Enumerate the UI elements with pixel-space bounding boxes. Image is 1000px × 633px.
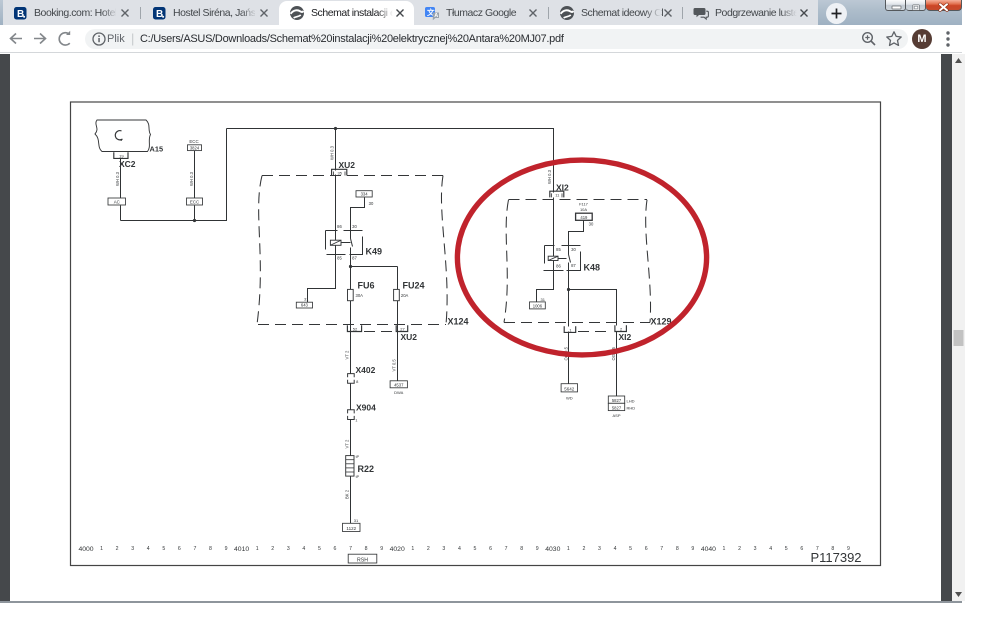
- svg-text:A15: A15: [150, 145, 164, 154]
- svg-text:2: 2: [620, 326, 623, 331]
- svg-text:WH 0.3: WH 0.3: [329, 145, 334, 160]
- svg-text:52: 52: [353, 326, 358, 331]
- svg-text:5: 5: [474, 546, 477, 552]
- svg-text:WH 0.3: WH 0.3: [115, 171, 120, 186]
- svg-text:3: 3: [598, 546, 601, 552]
- svg-text:8: 8: [676, 546, 679, 552]
- svg-text:9: 9: [225, 546, 228, 552]
- svg-text:27: 27: [400, 326, 405, 331]
- svg-text:87: 87: [571, 263, 576, 268]
- svg-text:30A: 30A: [356, 293, 364, 298]
- svg-text:19: 19: [119, 153, 124, 158]
- svg-text:86: 86: [337, 224, 342, 229]
- svg-text:30: 30: [369, 201, 374, 206]
- svg-text:1006: 1006: [533, 304, 543, 309]
- svg-text:WH 0.3: WH 0.3: [547, 169, 552, 184]
- svg-text:30: 30: [352, 224, 357, 229]
- svg-text:AC: AC: [114, 200, 120, 205]
- svg-text:6: 6: [334, 546, 337, 552]
- svg-text:4: 4: [302, 546, 305, 552]
- svg-text:4537: 4537: [394, 383, 404, 388]
- svg-text:FU24: FU24: [403, 280, 425, 290]
- svg-text:1: 1: [723, 546, 726, 552]
- svg-text:tP: tP: [356, 475, 360, 479]
- svg-text:VT 2: VT 2: [344, 350, 349, 359]
- svg-text:XU2: XU2: [401, 332, 418, 342]
- svg-text:RHD: RHD: [627, 406, 636, 411]
- svg-text:1: 1: [256, 546, 259, 552]
- svg-text:4020: 4020: [390, 546, 405, 553]
- svg-text:7: 7: [660, 546, 663, 552]
- svg-text:XI2: XI2: [556, 182, 569, 192]
- svg-text:ASP: ASP: [612, 413, 620, 418]
- svg-text:3: 3: [131, 546, 134, 552]
- svg-text:BK 2: BK 2: [344, 489, 349, 499]
- svg-text:2: 2: [582, 546, 585, 552]
- svg-text:ECC: ECC: [189, 139, 198, 144]
- svg-text:RSH: RSH: [357, 558, 368, 564]
- svg-text:XI2: XI2: [619, 332, 632, 342]
- svg-text:20A: 20A: [401, 293, 409, 298]
- svg-text:3: 3: [754, 546, 757, 552]
- svg-text:K49: K49: [366, 247, 383, 257]
- svg-text:6: 6: [800, 546, 803, 552]
- svg-text:5: 5: [629, 546, 632, 552]
- svg-text:tP: tP: [356, 455, 360, 459]
- svg-text:419: 419: [580, 215, 588, 220]
- svg-text:31: 31: [304, 297, 309, 302]
- svg-text:7: 7: [349, 546, 352, 552]
- svg-text:K48: K48: [584, 263, 601, 273]
- svg-text:P117392: P117392: [810, 550, 861, 565]
- svg-text:XU2: XU2: [339, 160, 356, 170]
- svg-text:9: 9: [380, 546, 383, 552]
- svg-text:85: 85: [337, 255, 342, 260]
- svg-text:1122: 1122: [346, 526, 356, 531]
- svg-text:X904: X904: [356, 403, 376, 413]
- svg-text:31: 31: [540, 297, 545, 302]
- svg-text:9: 9: [691, 546, 694, 552]
- svg-text:6: 6: [489, 546, 492, 552]
- svg-text:VT 2: VT 2: [344, 439, 349, 448]
- svg-text:5: 5: [785, 546, 788, 552]
- svg-text:10A: 10A: [580, 207, 587, 212]
- svg-text:87: 87: [352, 255, 357, 260]
- svg-text:2: 2: [116, 546, 119, 552]
- svg-text:F117: F117: [579, 201, 589, 206]
- svg-text:8: 8: [520, 546, 523, 552]
- svg-text:4040: 4040: [701, 546, 716, 553]
- svg-text:4: 4: [614, 546, 617, 552]
- svg-text:R22: R22: [358, 464, 375, 474]
- svg-text:30: 30: [589, 221, 594, 226]
- svg-text:3: 3: [287, 546, 290, 552]
- svg-text:35: 35: [337, 171, 342, 176]
- svg-text:X124: X124: [448, 317, 469, 327]
- svg-text:1: 1: [355, 417, 358, 422]
- svg-text:5: 5: [162, 546, 165, 552]
- svg-text:4000: 4000: [78, 546, 93, 553]
- svg-text:LHD: LHD: [627, 398, 635, 403]
- svg-text:3: 3: [442, 546, 445, 552]
- svg-text:WD: WD: [566, 396, 573, 401]
- svg-text:WH 0.3: WH 0.3: [189, 171, 194, 186]
- svg-text:4: 4: [769, 546, 772, 552]
- svg-text:FU6: FU6: [358, 280, 375, 290]
- svg-text:X402: X402: [356, 365, 376, 375]
- svg-text:VT 0.5: VT 0.5: [392, 359, 397, 372]
- svg-text:2: 2: [738, 546, 741, 552]
- svg-text:ECC: ECC: [190, 200, 199, 205]
- svg-text:31: 31: [354, 518, 359, 523]
- svg-text:4: 4: [147, 546, 150, 552]
- svg-text:8: 8: [209, 546, 212, 552]
- svg-text:9: 9: [536, 546, 539, 552]
- svg-text:1: 1: [100, 546, 103, 552]
- svg-text:5827: 5827: [612, 405, 622, 410]
- svg-text:6: 6: [645, 546, 648, 552]
- svg-text:6: 6: [178, 546, 181, 552]
- svg-text:XC2: XC2: [119, 159, 136, 169]
- svg-text:3824: 3824: [190, 145, 200, 150]
- svg-text:5642: 5642: [564, 387, 575, 392]
- svg-text:2: 2: [271, 546, 274, 552]
- svg-text:643: 643: [301, 303, 309, 308]
- svg-text:4: 4: [458, 546, 461, 552]
- svg-text:5: 5: [318, 546, 321, 552]
- svg-text:4030: 4030: [545, 546, 560, 553]
- svg-text:7: 7: [505, 546, 508, 552]
- svg-text:30: 30: [571, 247, 576, 252]
- svg-text:1: 1: [411, 546, 414, 552]
- svg-text:86: 86: [556, 264, 561, 269]
- svg-text:2: 2: [427, 546, 430, 552]
- svg-text:1: 1: [567, 546, 570, 552]
- svg-text:8: 8: [365, 546, 368, 552]
- svg-text:334: 334: [361, 192, 369, 197]
- svg-text:5827: 5827: [612, 398, 622, 403]
- svg-text:85: 85: [556, 247, 561, 252]
- svg-text:11: 11: [555, 193, 560, 198]
- svg-text:4010: 4010: [234, 546, 249, 553]
- svg-text:8: 8: [356, 379, 359, 384]
- svg-text:7: 7: [193, 546, 196, 552]
- svg-text:DWA: DWA: [394, 390, 404, 395]
- svg-text:1: 1: [569, 327, 572, 332]
